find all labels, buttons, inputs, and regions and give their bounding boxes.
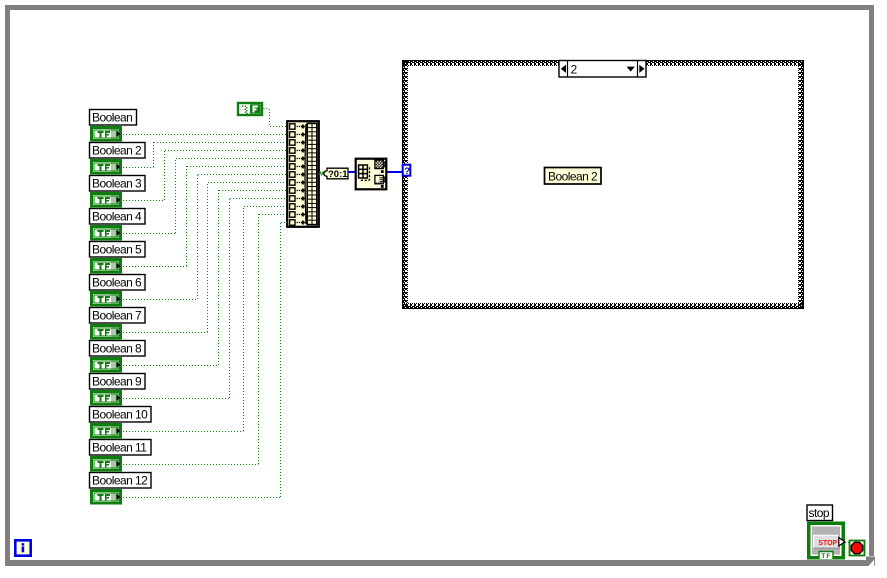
svg-text:Boolean 12: Boolean 12: [92, 474, 148, 488]
svg-text:Boolean 7: Boolean 7: [92, 309, 142, 323]
svg-text:Boolean 6: Boolean 6: [92, 276, 142, 290]
svg-text:?0:1: ?0:1: [328, 169, 348, 180]
svg-text:Boolean 4: Boolean 4: [92, 210, 142, 224]
svg-text:Boolean 11: Boolean 11: [92, 441, 147, 455]
svg-text:Boolean 10: Boolean 10: [92, 408, 148, 422]
svg-text:Boolean: Boolean: [92, 111, 132, 125]
svg-text:STOP: STOP: [818, 540, 837, 547]
svg-text:Boolean 2: Boolean 2: [548, 169, 598, 183]
svg-text:TF: TF: [821, 553, 831, 560]
svg-text:?: ?: [404, 166, 410, 177]
svg-text:Boolean 2: Boolean 2: [92, 144, 142, 158]
svg-text:Boolean 5: Boolean 5: [92, 243, 142, 257]
svg-text:2: 2: [571, 62, 578, 76]
svg-text:Boolean 3: Boolean 3: [92, 177, 142, 191]
svg-text:stop: stop: [809, 506, 830, 520]
svg-text:Boolean 9: Boolean 9: [92, 375, 142, 389]
svg-text:Boolean 8: Boolean 8: [92, 342, 142, 356]
